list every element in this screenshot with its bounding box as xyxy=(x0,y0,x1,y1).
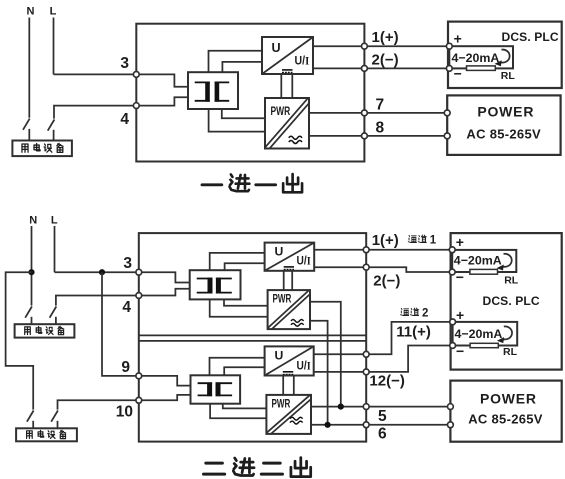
switch blade on N line xyxy=(23,119,30,130)
resistor RL ch1 xyxy=(470,269,498,274)
svg-text:PWR: PWR xyxy=(272,398,291,411)
wire PWR to terminal 8 xyxy=(309,135,364,137)
terminal circle 4 (bottom) xyxy=(136,293,142,299)
terminal circle 2 xyxy=(362,66,368,72)
wire terminal 4 to load xyxy=(54,106,136,119)
POWER box (top) xyxy=(447,95,560,154)
transformer box (top) xyxy=(188,72,238,109)
wires U/I to PWR xyxy=(281,74,292,98)
wire stub to load 1 xyxy=(55,317,57,324)
wire PWR ch1 output 1 down to power bus 5 xyxy=(310,302,341,407)
wire N bypass to second load xyxy=(6,272,34,409)
wire terminal 5 to POWER (bottom) xyxy=(366,406,450,408)
svg-text:DCS. PLC: DCS. PLC xyxy=(483,294,540,308)
isolator outer box (bottom) xyxy=(139,233,366,442)
POWER terminal circle 7 xyxy=(444,110,450,116)
junction dot power bus 6 xyxy=(325,422,331,428)
switch blade on bypass line xyxy=(27,411,34,422)
DC symbol ch2 xyxy=(283,371,293,373)
svg-text:N: N xyxy=(29,215,37,227)
wire transformer to PWR input 2 xyxy=(209,109,265,132)
wire transformer ch2 to U/I input 2 xyxy=(224,367,264,375)
U/I ch1 diagonal xyxy=(265,243,315,271)
terminal circle 2 (bottom) xyxy=(363,264,369,270)
svg-text:U: U xyxy=(272,41,281,55)
4-20mA range box ch2 xyxy=(453,322,518,346)
PWR box ch2 xyxy=(266,395,311,434)
AC symbol in PWR xyxy=(289,136,302,143)
terminal circle 3 xyxy=(133,72,139,78)
isolator outer box (top) xyxy=(136,24,364,162)
wire U/I ch1 to terminal 2 xyxy=(314,266,366,268)
POWER terminal circle 5 xyxy=(448,404,454,410)
load 1 text 用电设备 xyxy=(25,326,64,334)
svg-text:+: + xyxy=(456,307,464,323)
svg-text:U: U xyxy=(275,348,284,362)
U/I diagonal xyxy=(262,37,313,74)
wire U/I ch2 to terminal 11 xyxy=(314,353,367,355)
switch blade on N line (bottom) xyxy=(25,307,32,318)
svg-text:N: N xyxy=(27,5,35,17)
PWR box (top) xyxy=(265,98,309,149)
wire L to terminal 3 (bottom) xyxy=(55,271,139,273)
POWER terminal circle 6 xyxy=(448,422,454,428)
AC symbol PWR ch1 xyxy=(291,319,304,326)
svg-text:RL: RL xyxy=(501,70,516,82)
wire junction down to terminal 9 xyxy=(102,272,139,376)
wire terminal 4 to transformer ch1 xyxy=(139,289,190,296)
svg-text:−: − xyxy=(456,343,464,359)
wire terminal 10 to load 2 xyxy=(58,400,139,409)
terminal circle 11 xyxy=(363,351,369,357)
wire bypass stub to load 2 xyxy=(32,421,34,429)
svg-text:POWER: POWER xyxy=(477,104,534,120)
wire stub to load 2 xyxy=(57,421,59,429)
terminal circle 8 xyxy=(362,133,368,139)
terminal circle 1 (bottom) xyxy=(363,247,369,253)
svg-text:6: 6 xyxy=(378,425,387,442)
wire terminal 2 to DCS ch1 minus xyxy=(366,267,452,272)
svg-text:10: 10 xyxy=(116,403,133,420)
wire N vertical xyxy=(28,18,30,118)
terminal circle 1 xyxy=(362,43,368,49)
PWR double diagonal xyxy=(265,98,309,148)
PWR ch2 double diagonal xyxy=(267,395,311,434)
resistor RL (top) xyxy=(467,66,496,71)
svg-text:1(+): 1(+) xyxy=(372,29,399,46)
wire transformer ch1 to U/I input 2 xyxy=(225,263,265,270)
wire stub to load xyxy=(53,130,55,141)
svg-text:POWER: POWER xyxy=(480,390,537,406)
POWER box (bottom) xyxy=(450,381,561,442)
svg-text:RL: RL xyxy=(504,274,519,286)
svg-text:8: 8 xyxy=(376,120,385,137)
divider line 1 between channels xyxy=(139,334,366,336)
AC symbol PWR ch2 xyxy=(290,417,303,424)
wire PWR ch2 to terminal 6 xyxy=(311,424,366,426)
load box 用电设备 (bottom 2) xyxy=(16,428,77,441)
svg-text:7: 7 xyxy=(376,96,385,113)
wire N stub to load xyxy=(28,129,30,141)
transformer box ch1 xyxy=(190,270,241,299)
wire transformer ch2 to PWR input 2 xyxy=(210,404,266,419)
svg-text:U/I: U/I xyxy=(297,255,311,268)
4-20mA range box xyxy=(449,46,513,68)
transformer ch2 core bars xyxy=(207,382,212,396)
svg-text:9: 9 xyxy=(121,359,130,376)
DCS PLC box (top) xyxy=(448,22,562,88)
wire transformer ch1 to PWR input 1 xyxy=(224,299,268,305)
wire L vertical (bottom) xyxy=(54,226,56,272)
svg-text:L: L xyxy=(50,5,57,17)
wire U/I ch2 to terminal 12 xyxy=(314,371,367,373)
U/I converter box (top) xyxy=(262,37,313,74)
wire terminal 4 to load 1 xyxy=(56,296,139,306)
DC symbol under U/I xyxy=(282,69,293,71)
wire transformer to PWR input 1 xyxy=(222,109,265,118)
switch blade on load return line xyxy=(48,120,55,131)
load 2 text 用电设备 xyxy=(27,430,66,438)
transformer ch1 winding strokes xyxy=(197,279,232,293)
svg-text:+: + xyxy=(456,234,464,250)
DCS ch1 plus terminal circle xyxy=(449,247,455,253)
junction dot on N line xyxy=(28,269,34,275)
svg-text:L: L xyxy=(51,215,58,227)
title 二进二出 xyxy=(204,458,311,477)
PWR box ch1 xyxy=(268,290,310,329)
load box 用电设备 (bottom 1) xyxy=(15,324,75,337)
terminal circle 5 xyxy=(363,404,369,410)
svg-text:−: − xyxy=(454,65,462,81)
svg-text:U: U xyxy=(275,244,284,258)
transformer core bars xyxy=(205,82,210,102)
loop arrow DCS ch2 xyxy=(503,326,512,339)
wire terminal 1 to DCS plus xyxy=(364,45,449,47)
wire terminal 4 to transformer xyxy=(136,97,188,105)
U/I converter box ch2 xyxy=(265,346,314,375)
load text 用电设备 xyxy=(22,143,63,152)
svg-text:4: 4 xyxy=(120,111,129,128)
wire transformer to U/I input 1 xyxy=(209,51,263,72)
svg-text:−: − xyxy=(456,269,464,285)
U/I converter box ch1 xyxy=(265,243,315,271)
terminal circle 9 xyxy=(136,373,142,379)
svg-text:PWR: PWR xyxy=(271,104,291,118)
transformer ch1 core bars xyxy=(208,278,213,294)
loop arrow (top DCS) xyxy=(500,50,509,63)
wire U/I to terminal 1 xyxy=(313,45,364,47)
DCS ch2 plus terminal circle xyxy=(450,319,456,325)
DC symbol ch1 xyxy=(284,266,294,268)
transformer winding strokes xyxy=(195,82,230,100)
wires U/I ch1 to PWR ch1 xyxy=(284,271,293,290)
wire terminal 3 to transformer xyxy=(136,74,188,86)
switch blade on load 1 return xyxy=(50,307,57,318)
svg-text:2(−): 2(−) xyxy=(372,52,399,69)
junction dot on L wire xyxy=(99,269,105,275)
wire terminal 8 to POWER xyxy=(364,135,447,137)
terminal circle 6 xyxy=(363,422,369,428)
wire terminal 10 to transformer ch2 xyxy=(139,395,191,400)
POWER terminal circle 8 xyxy=(444,133,450,139)
label 通道1 xyxy=(408,235,426,242)
svg-text:5: 5 xyxy=(378,408,387,425)
svg-text:4−20mA: 4−20mA xyxy=(455,327,503,341)
wire terminal 3 to transformer ch1 xyxy=(139,272,190,282)
terminal circle 4 xyxy=(133,103,139,109)
svg-text:1(+): 1(+) xyxy=(372,232,399,249)
svg-text:+: + xyxy=(454,31,462,47)
wire transformer to U/I input 2 xyxy=(222,62,262,72)
wire terminal 7 to POWER xyxy=(364,112,447,114)
svg-text:AC 85-265V: AC 85-265V xyxy=(466,127,541,142)
wire L to terminal 3 xyxy=(54,73,137,75)
wire N stub to load 1 xyxy=(31,317,33,324)
svg-text:RL: RL xyxy=(503,346,518,358)
terminal circle 10 xyxy=(136,397,142,403)
transformer box ch2 xyxy=(191,375,241,403)
wire transformer ch1 to U/I input 1 xyxy=(210,253,265,270)
terminal circle 7 xyxy=(362,110,368,116)
label 通道2 xyxy=(401,308,419,315)
svg-text:11(+): 11(+) xyxy=(396,324,431,341)
svg-text:U/I: U/I xyxy=(297,360,311,373)
wire terminal 2 to DCS minus xyxy=(364,67,449,69)
junction dot power bus 5 xyxy=(338,404,344,410)
title 一进一出 xyxy=(202,174,302,192)
divider line 2 between channels xyxy=(139,340,366,342)
svg-text:4−20mA: 4−20mA xyxy=(452,51,500,65)
DCS ch2 minus terminal circle xyxy=(450,343,456,349)
svg-text:2(−): 2(−) xyxy=(373,273,400,290)
wire terminal 11 to DCS ch2 plus xyxy=(366,322,452,354)
svg-text:DCS. PLC: DCS. PLC xyxy=(502,30,559,44)
DCS PLC box (bottom) xyxy=(451,233,562,370)
resistor RL ch2 xyxy=(470,343,498,347)
wires U/I ch2 to PWR ch2 xyxy=(283,376,294,395)
terminal circle 3 (bottom) xyxy=(136,269,142,275)
svg-text:2: 2 xyxy=(422,308,428,320)
svg-text:4−20mA: 4−20mA xyxy=(454,253,502,267)
svg-text:3: 3 xyxy=(120,55,129,72)
wire terminal 1 to DCS ch1 plus xyxy=(366,249,452,251)
DCS minus terminal circle xyxy=(446,66,452,72)
wire L vertical xyxy=(53,18,55,75)
svg-text:AC 85-265V: AC 85-265V xyxy=(468,412,543,427)
wire PWR ch1 output 2 down to power bus 6 xyxy=(310,321,328,425)
terminal circle 12 xyxy=(363,369,369,375)
svg-text:12(−): 12(−) xyxy=(369,373,404,390)
svg-text:1: 1 xyxy=(430,235,437,247)
DCS ch1 minus terminal circle xyxy=(449,269,455,275)
wire terminal 9 to transformer ch2 xyxy=(139,376,191,386)
U/I ch2 diagonal xyxy=(265,346,314,375)
wire U/I ch1 to terminal 1 xyxy=(314,249,366,251)
svg-text:U/I: U/I xyxy=(295,55,310,68)
svg-text:3: 3 xyxy=(123,255,132,272)
wire U/I to terminal 2 xyxy=(313,67,364,69)
wire terminal 6 to POWER (bottom) xyxy=(366,424,450,426)
4-20mA range box ch1 xyxy=(452,250,516,272)
switch blade on load 2 return xyxy=(51,411,58,422)
wire N vertical (bottom) xyxy=(31,226,33,306)
svg-text:4: 4 xyxy=(122,299,131,316)
transformer ch2 winding strokes xyxy=(198,383,233,395)
wire PWR to terminal 7 xyxy=(309,112,364,114)
wire transformer ch2 to U/I input 1 xyxy=(210,358,265,376)
DCS plus terminal circle xyxy=(446,43,452,49)
wire transformer ch2 to PWR input 1 xyxy=(223,404,267,409)
wire transformer ch1 to PWR input 2 xyxy=(210,299,268,316)
load box 用电设备 (top) xyxy=(12,141,72,157)
loop arrow DCS ch1 xyxy=(503,254,512,267)
wire PWR ch2 to terminal 5 xyxy=(311,406,366,408)
PWR ch1 double diagonal xyxy=(268,290,310,329)
wire terminal 12 to DCS ch2 minus xyxy=(366,346,452,372)
svg-text:PWR: PWR xyxy=(273,293,292,306)
